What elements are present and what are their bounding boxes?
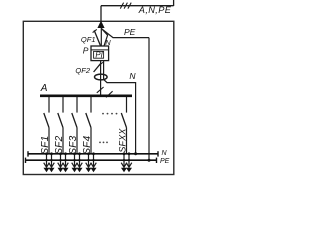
arrowheads SF2 bbox=[58, 168, 64, 172]
wire: overhead supply line bbox=[101, 5, 174, 7]
breaker SF2 blade bbox=[58, 113, 63, 128]
breaker QF1 tick bbox=[93, 29, 97, 32]
svg-text:PE: PE bbox=[124, 27, 136, 37]
arrowheads SF1 bbox=[44, 168, 50, 172]
breaker SFXX blade bbox=[121, 113, 126, 128]
bus N left end tick bbox=[27, 151, 29, 156]
svg-text:SFXX: SFXX bbox=[117, 128, 127, 153]
svg-text:A,N,PE: A,N,PE bbox=[138, 5, 172, 15]
svg-text:A: A bbox=[40, 83, 48, 94]
breaker SF1 blade bbox=[44, 113, 49, 128]
group feeders SF1..SF4 and SFXX bbox=[44, 97, 127, 154]
breaker SF4 stub bbox=[90, 97, 92, 113]
wire: N branch from RCD to N riser bbox=[104, 79, 136, 153]
wire: service drop bbox=[100, 6, 102, 22]
breaker SF3 blade bbox=[72, 113, 77, 128]
junction dot PE riser on bus PE bbox=[148, 159, 151, 162]
bus N (bottom) bbox=[28, 153, 158, 155]
wire SF1 feeder bbox=[48, 128, 50, 154]
breaker SF2 stub bbox=[62, 97, 64, 113]
wire: PE riser on right bbox=[148, 38, 150, 161]
wire SFXX feeder bbox=[126, 128, 128, 154]
svg-text:SF1: SF1 bbox=[40, 136, 51, 155]
arrow: supply entry into enclosure bbox=[97, 21, 104, 28]
svg-text:N: N bbox=[162, 150, 168, 157]
svg-text:PE: PE bbox=[160, 158, 170, 165]
svg-text:QF1: QF1 bbox=[81, 35, 96, 44]
outgoing pair SFXX bbox=[121, 154, 132, 168]
svg-text:QF2: QF2 bbox=[75, 66, 90, 75]
svg-text:SF3: SF3 bbox=[68, 135, 79, 154]
wire: N from meter through RCD bbox=[103, 61, 105, 80]
bus PE left end tick bbox=[25, 158, 27, 163]
breaker SF1 stub bbox=[48, 97, 50, 113]
wire: PE branch to the right bbox=[101, 29, 149, 38]
wire: phase A from meter down to busbar bbox=[100, 61, 102, 96]
bus PE (bottom) bbox=[26, 159, 157, 161]
slash on busbar bbox=[106, 91, 113, 97]
arrowheads SFXX bbox=[121, 168, 127, 172]
bus N right end tick bbox=[157, 151, 159, 156]
wire: N conductor into meter bbox=[102, 29, 108, 46]
wire: stub at right end of supply line bbox=[173, 0, 175, 6]
outgoing pair SF2 bbox=[58, 154, 69, 168]
outgoing pair SF3 bbox=[72, 154, 83, 168]
breaker SF4 blade bbox=[86, 113, 91, 128]
outgoing cable groups (pairs with arrows) bbox=[44, 154, 133, 172]
junction dots on bus N at outgoing pairs bbox=[45, 152, 130, 155]
outgoing pair SF1 bbox=[44, 154, 55, 168]
svg-text:N: N bbox=[129, 71, 136, 81]
bus PE right end tick bbox=[156, 158, 158, 163]
arrowheads SF4 bbox=[86, 168, 92, 172]
svg-text:P: P bbox=[83, 45, 89, 55]
conductor-count slashes /// bbox=[120, 3, 131, 9]
breaker QF2 blade bbox=[94, 63, 102, 72]
slash on phase wire above busbar bbox=[97, 87, 104, 93]
breaker SFXX stub bbox=[126, 97, 128, 113]
arrowheads SF3 bbox=[72, 168, 78, 172]
breaker QF1 blade bbox=[94, 30, 100, 46]
busbar A bbox=[40, 95, 132, 98]
junction dot N riser on bus N bbox=[134, 152, 137, 155]
junction dots on bus PE at outgoing pairs bbox=[45, 159, 130, 161]
RCD torus bbox=[95, 74, 108, 80]
svg-text:SF2: SF2 bbox=[54, 135, 65, 154]
outgoing pair SF4 bbox=[86, 154, 97, 168]
svg-text:PI: PI bbox=[95, 51, 103, 60]
meter inner frame bbox=[94, 51, 104, 58]
continuation dots row 2 bbox=[99, 142, 108, 144]
svg-text:SF4: SF4 bbox=[82, 135, 93, 154]
wire SF2 feeder bbox=[62, 128, 64, 154]
meter PI outer box bbox=[91, 46, 109, 61]
continuation dots row 1 bbox=[102, 113, 117, 115]
breaker SF3 stub bbox=[76, 97, 78, 113]
enclosure box bbox=[23, 21, 174, 174]
wire: stub below entry arrow / phase into meter bbox=[100, 28, 102, 47]
breaker QF2 tick bbox=[99, 62, 103, 65]
wire SF3 feeder bbox=[76, 128, 78, 154]
meter inner divider bbox=[91, 49, 109, 51]
wire SF4 feeder bbox=[90, 128, 92, 154]
